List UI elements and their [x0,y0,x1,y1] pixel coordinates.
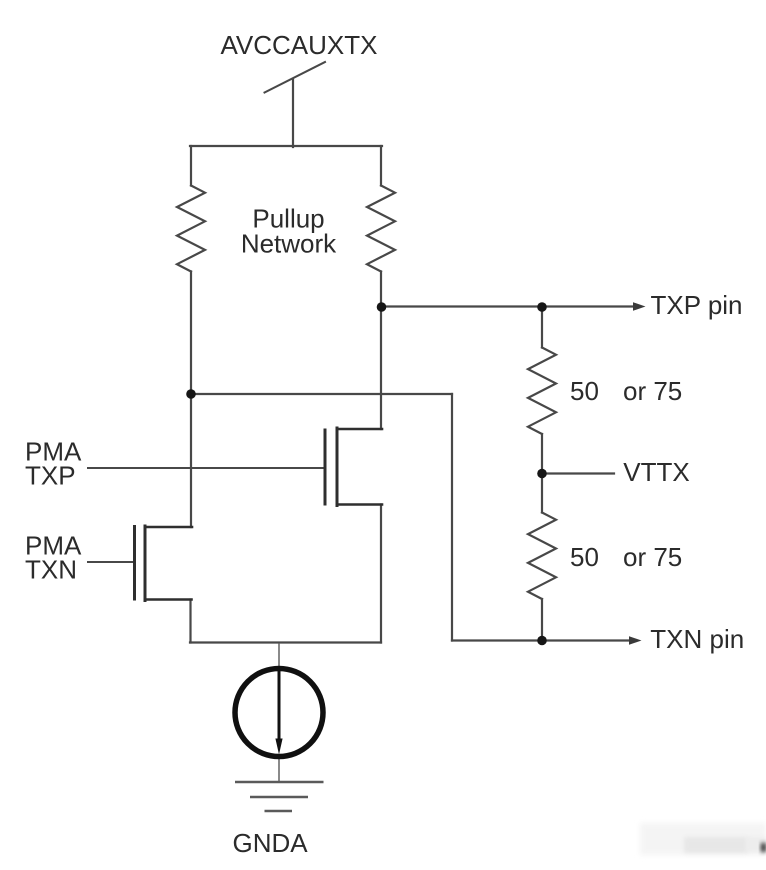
svg-text:or 75: or 75 [623,542,682,572]
svg-text:TXP pin: TXP pin [651,290,743,320]
svg-text:GNDA: GNDA [233,828,309,858]
svg-text:50: 50 [570,542,599,572]
svg-text:AVCCAUXTX: AVCCAUXTX [221,30,378,60]
svg-text:TXN pin: TXN pin [650,624,744,654]
svg-text:TXN: TXN [25,555,77,585]
svg-text:TXP: TXP [25,461,76,491]
svg-text:VTTX: VTTX [623,457,689,487]
svg-text:or 75: or 75 [623,376,682,406]
svg-text:Network: Network [241,228,337,258]
svg-text:50: 50 [570,376,599,406]
